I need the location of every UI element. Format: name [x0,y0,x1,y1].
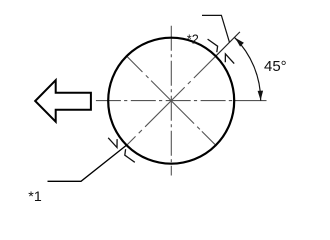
radial extension line at 45 deg [216,32,240,56]
horizontal center line [96,100,232,102]
leader line *1 [48,145,127,181]
match mark bracket SW inner [125,149,135,162]
leader line *2 [202,15,230,42]
svg-text:45°: 45° [264,58,287,75]
arrowhead at 45 deg end [235,38,244,47]
svg-text:*2: *2 [187,32,199,46]
match mark bracket SW outer [108,138,117,148]
svg-text:*1: *1 [28,189,42,205]
horizontal extension line (right, for dimension) [233,100,267,102]
match mark bracket NE inner [225,54,234,64]
vertical center line [170,26,172,176]
block arrow (direction indicator) [35,80,91,122]
dimension arc 45 deg [235,37,261,100]
match mark bracket NE outer [208,39,218,52]
circle (pulley outline) [108,38,234,164]
diagonal center line SW-NE [127,56,216,145]
arrowhead at 0 deg end [258,91,264,101]
diagonal center line NW-SE [127,56,216,145]
